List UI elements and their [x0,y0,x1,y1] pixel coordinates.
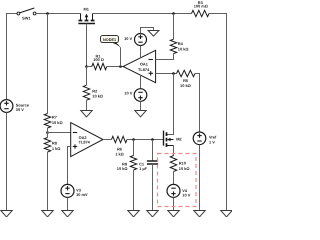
ground below R8 [42,211,53,217]
svg-text:TL874: TL874 [138,67,150,72]
resistor R6 1 kOhm [103,136,127,156]
resistor R9 10 kOhm [117,140,137,172]
wire: R8 bottom to ground [47,152,49,211]
svg-text:M2: M2 [176,136,182,141]
wire: V5 bottom to ground [140,101,142,110]
resistor R7 10 kOhm [44,114,62,129]
wire: Source bottom to ground [6,112,8,210]
svg-text:10 kΩ: 10 kΩ [179,166,190,171]
transistor M1 (PMOS) [78,7,95,24]
wire: R5 to Vref [195,74,200,132]
wire: OA1 plus input lead [156,73,177,75]
ground below Vref [194,211,205,217]
wire: OA1 V- pin to V5 [140,75,142,89]
source V1 10 V (OA1 positive supply) [124,34,146,46]
wire: C1 bottom to ground [152,164,154,211]
ground below R9 [128,211,139,217]
svg-text:100 Ω: 100 Ω [93,57,104,62]
ground below V5 [135,111,146,117]
svg-text:10 kΩ: 10 kΩ [180,83,191,88]
node junction at top rail x=47 [46,12,49,15]
ground right of V1 [148,31,159,37]
resistor R1 100 Ohm [87,53,107,69]
op-amp OA1 TL874 (mirrored, output left) [123,50,156,82]
wire: V1 bottom to OA1 V+ pin [140,46,142,59]
svg-text:SW1: SW1 [22,15,31,20]
svg-text:1 µF: 1 µF [139,166,147,171]
svg-text:100 mΩ: 100 mΩ [194,4,208,9]
wire: plus node down to M2 drain [167,74,174,135]
svg-text:1 V: 1 V [209,139,215,144]
wire: M1 gate lead down to R1/R2 junction [86,24,88,67]
svg-text:10 kΩ: 10 kΩ [52,120,63,125]
wire: R2 bottom to ground [86,100,88,110]
svg-text:10 V: 10 V [124,90,132,95]
wire: top rail from SW1 to M1 [36,13,81,15]
ground below R2 [81,111,92,117]
op-amp OA2 TL874 [71,123,103,157]
ground at right rail bottom [221,211,232,217]
resistor R2 10 kOhm [83,67,103,101]
wire: top rail right corner into right rail [209,14,227,211]
svg-text:10 kΩ: 10 kΩ [178,47,189,52]
svg-text:1 kΩ: 1 kΩ [52,146,61,151]
resistor R3 100 mOhm [192,0,210,17]
wire: Vref bottom to ground [199,145,201,211]
source V3 10 mV [61,184,88,197]
svg-text:R4: R4 [178,41,184,46]
source V5 10 V (OA1 negative supply) [124,89,146,102]
wire: junction to OA2 minus input [48,132,71,134]
resistor R8 1 kOhm [44,138,60,153]
wire: NODE1 tag stem down to output node [120,47,122,66]
node junction R7/R8/OA2 minus [46,131,49,134]
source Vref 1 V [193,132,217,145]
svg-text:10 V: 10 V [124,36,132,41]
wire: R10 to V4 [173,172,175,185]
wire: R1 to OA1 output node [107,66,123,68]
node label NODE1 [101,36,122,49]
node junction gate/R1/R2 [85,65,88,68]
ground below V3 [62,211,73,217]
resistor R10 10 kOhm [170,156,189,172]
svg-text:TL874: TL874 [79,139,91,144]
capacitor C1 1 uF [139,140,158,172]
svg-text:OA1: OA1 [140,62,149,67]
wire: top rail from M1 to R3 [93,13,192,15]
source V4 10 V [167,184,191,197]
ground below Source [1,211,12,217]
source V2 Source 30 V [0,100,30,113]
switch SW1 [17,8,36,20]
svg-text:30 V: 30 V [16,107,24,112]
svg-text:10 kΩ: 10 kΩ [92,94,103,99]
svg-text:1 kΩ: 1 kΩ [115,152,124,157]
svg-text:10 mV: 10 mV [76,192,88,197]
node junction at top rail x=173 [172,12,175,15]
wire: V3 bottom to ground [67,197,69,210]
wire: gate node line R6 to M2 gate [127,139,164,141]
annotation box (red dashed) around R10/V4 [158,154,197,207]
wire: OA2 plus input down to V3 [68,147,71,185]
ground below C1 [147,211,158,217]
svg-text:M1: M1 [83,7,89,12]
wire: left rail top segment [7,14,18,100]
wire: M2 source down into red box to R10 [173,146,175,156]
wire: OA1 minus input to R4 bottom [156,54,174,60]
svg-text:10 kΩ: 10 kΩ [117,166,128,171]
resistor R4 10 kOhm [170,14,188,54]
node junction R9 tap [132,138,135,141]
node junction plus input / R5 / M2 branch [172,72,175,75]
svg-text:10 V: 10 V [182,193,190,198]
wire: V1 top elbow to ground [141,28,154,34]
transistor M2 (NMOS) [164,131,183,147]
wire: column x=47 from rail down to R7 [47,14,49,114]
resistor R5 10 kOhm [177,70,196,88]
wire: R9 bottom to ground [133,170,135,211]
svg-text:NODE1: NODE1 [103,38,116,42]
node junction OA1 output / NODE1 [119,65,122,68]
ground below V4 [168,211,179,217]
node junction C1 tap [151,138,154,141]
wire: V4 bottom to ground [173,197,175,210]
